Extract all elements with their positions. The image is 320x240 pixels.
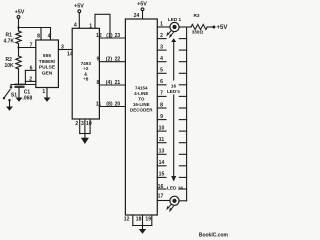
svg-text:12: 12 — [124, 217, 130, 223]
svg-text:R3: R3 — [194, 13, 200, 18]
svg-text:3: 3 — [160, 44, 163, 50]
node junction R1/R2/pin7 — [17, 46, 19, 48]
svg-text:16: 16 — [171, 84, 177, 89]
node junction at +5V rail / R1 — [17, 26, 19, 28]
svg-text:16: 16 — [158, 184, 164, 190]
svg-text:23: 23 — [115, 33, 121, 39]
resistor R2 — [16, 56, 21, 69]
wire feedback loop 7493 pin 12 to pin 1 — [95, 14, 110, 38]
wire +5V rail to 555 pins 8 and 4 — [19, 27, 51, 29]
svg-text:2: 2 — [160, 33, 163, 39]
ground (74154) — [139, 229, 146, 234]
svg-text:8: 8 — [160, 102, 163, 108]
wire output pin 8 stubs — [157, 107, 186, 109]
svg-text:8: 8 — [97, 80, 100, 86]
svg-text:17: 17 — [158, 194, 164, 200]
svg-text:+5V: +5V — [137, 2, 147, 8]
wire output pin 5 stubs — [157, 72, 186, 74]
label 16 LED's — [167, 84, 180, 95]
svg-text:12: 12 — [96, 33, 102, 39]
svg-text:18: 18 — [136, 217, 142, 223]
svg-text:+5V: +5V — [74, 3, 84, 9]
pins 12 18 19 labels (74154 bottom) — [124, 217, 151, 223]
wire 555 pin 1 to ground — [46, 88, 48, 98]
ground (below 555 pin 1) — [44, 98, 51, 102]
svg-text:21: 21 — [115, 80, 121, 86]
svg-text:6: 6 — [160, 79, 163, 85]
svg-text:2: 2 — [75, 121, 78, 127]
svg-text:(1): (1) — [106, 33, 113, 39]
wire 7493 pins 2,3,10 to ground — [80, 119, 90, 139]
counter U2: 7493 box — [72, 28, 99, 119]
svg-text:10K: 10K — [5, 63, 15, 69]
svg-text:÷8: ÷8 — [83, 77, 89, 82]
wire output pin 14 stubs — [157, 165, 186, 167]
ground (below C1) — [16, 98, 23, 102]
wire LED1 to R3 — [179, 26, 191, 28]
wire R3 to +5V terminal — [207, 26, 214, 28]
power +5V terminal (7493) — [78, 10, 81, 29]
svg-text:1: 1 — [89, 24, 92, 30]
annotation arrow 16 LED's — [171, 38, 176, 181]
svg-text:4: 4 — [74, 22, 77, 28]
svg-text:19: 19 — [145, 217, 151, 223]
wire output pin 7 stubs — [157, 95, 186, 97]
svg-text:4.7K: 4.7K — [4, 38, 15, 44]
wire output pin 15 stubs — [157, 176, 186, 178]
label 555 TIMER/PULSE GEN — [39, 53, 56, 76]
svg-text:4-LINE: 4-LINE — [134, 91, 148, 96]
svg-text:5: 5 — [160, 68, 163, 74]
svg-text:22: 22 — [115, 57, 121, 63]
ground (below S1) — [6, 100, 13, 111]
wire output pin 11 stubs — [157, 142, 186, 144]
node labels 12 (1) 23 — [96, 33, 120, 39]
svg-text:TO: TO — [138, 97, 145, 102]
svg-text:+5V: +5V — [217, 25, 228, 31]
ground (7493) — [81, 138, 89, 144]
LED 16 — [166, 196, 179, 212]
wire junction bus to 555 — [11, 84, 36, 86]
node labels 8 (4) 21 — [97, 80, 121, 86]
svg-text:13: 13 — [159, 149, 165, 155]
svg-text:16-LINE: 16-LINE — [133, 102, 150, 107]
svg-text:15: 15 — [159, 172, 165, 178]
svg-text:11: 11 — [96, 101, 102, 107]
wire output pin 4 stubs — [157, 61, 186, 63]
wire 7493 pin 8 to 74154 pin 21 — [99, 84, 125, 86]
svg-text:LED's: LED's — [167, 89, 180, 94]
node labels 11 (8) 20 — [96, 101, 121, 107]
svg-text:2: 2 — [29, 76, 32, 82]
svg-text:LED 1: LED 1 — [168, 17, 182, 22]
label 74154 4-LINE TO 16-LINE DECODER — [130, 86, 153, 113]
svg-text:4: 4 — [160, 56, 163, 62]
wire 555 pin 3 to 7493 pin 14 — [58, 49, 72, 51]
svg-text:555: 555 — [43, 53, 51, 59]
wire LED anode bus — [186, 27, 188, 201]
svg-text:(8): (8) — [106, 101, 113, 107]
svg-text:7: 7 — [30, 43, 33, 49]
op-amp U1: 555 timer box — [36, 40, 59, 88]
wire 7493 pin 11 to 74154 pin 20 — [99, 106, 125, 108]
label R2 10K — [5, 57, 15, 69]
svg-text:4: 4 — [48, 33, 51, 39]
svg-text:11: 11 — [159, 137, 165, 143]
svg-text:+5V: +5V — [15, 10, 25, 16]
svg-text:10: 10 — [159, 125, 165, 131]
power +5V terminal (74154 pin 24) — [141, 8, 144, 19]
svg-text:.068: .068 — [23, 95, 33, 101]
wire riser to 555 pin 4 — [50, 28, 52, 41]
svg-text:TIMER/: TIMER/ — [39, 59, 56, 65]
node terminal dot — [212, 26, 215, 29]
svg-text:BookIC.com: BookIC.com — [199, 233, 229, 239]
svg-text:330Ω: 330Ω — [192, 30, 204, 35]
svg-text:3: 3 — [81, 121, 84, 127]
svg-text:74154: 74154 — [135, 86, 148, 91]
label 7493 divide by 2 and 8 — [81, 61, 92, 82]
svg-text:1: 1 — [42, 89, 45, 95]
wire output pin 6 stubs — [157, 84, 186, 86]
svg-text:1: 1 — [160, 21, 163, 27]
label C1 .068 — [23, 89, 33, 101]
svg-text:9: 9 — [160, 114, 163, 120]
wire output pin 10 stubs — [157, 130, 186, 132]
svg-text:7: 7 — [160, 91, 163, 97]
wire R1 bottom to 555 pin 7 — [19, 44, 36, 48]
svg-text:PULSE: PULSE — [39, 65, 56, 71]
svg-text:24: 24 — [134, 13, 140, 19]
wire 7493 pin 12 to 74154 pin 23 — [99, 37, 125, 39]
svg-text:14: 14 — [159, 160, 165, 166]
svg-text:(2): (2) — [106, 57, 113, 63]
wire 74154 output pin 17 to LED16 — [157, 200, 170, 202]
resistor R1 — [16, 31, 21, 44]
wire 74154 output pin 1 to LED1 — [157, 26, 169, 28]
resistor R3 — [191, 24, 207, 29]
label R1 4.7K — [4, 33, 15, 45]
wire output pin 16 stubs — [157, 188, 186, 190]
node labels 9 (2) 22 — [97, 57, 121, 63]
wire output pin 9 stubs — [157, 119, 186, 121]
wire LED16 to bus — [179, 200, 187, 202]
svg-text:10: 10 — [86, 121, 92, 127]
pins 2 3 10 labels (7493 bottom) — [75, 121, 91, 127]
svg-text:LED 16: LED 16 — [167, 185, 183, 190]
svg-text:6: 6 — [30, 66, 33, 72]
svg-text:3: 3 — [61, 45, 64, 51]
wire output pin 2 stubs — [157, 38, 186, 40]
svg-text:S1: S1 — [11, 92, 17, 98]
decoder U3: 74154 box — [125, 19, 157, 215]
svg-text:20: 20 — [115, 101, 121, 107]
wire junction to R2 — [18, 48, 20, 57]
switch S1 — [3, 85, 13, 102]
wire output pin 13 stubs — [157, 153, 186, 155]
svg-text:(4): (4) — [106, 80, 113, 86]
svg-text:GEN: GEN — [42, 70, 53, 76]
svg-text:8: 8 — [37, 33, 40, 39]
LED 1 — [166, 22, 179, 38]
wire riser to 555 pin 8 — [40, 28, 42, 41]
wire 555 pin 6 to junction — [25, 70, 35, 84]
wire 555 pin 2 stub — [25, 80, 35, 82]
power +5V terminal (left, feeds R1 and 555 pins 8/4) — [17, 16, 20, 31]
svg-text:DECODER: DECODER — [130, 108, 153, 113]
wire R2 bottom to C1 junction — [18, 69, 20, 85]
svg-text:9: 9 — [97, 57, 100, 63]
wire 74154 pins 12,18,19 to ground — [133, 215, 152, 230]
wire output pin 3 stubs — [157, 49, 186, 51]
wire 7493 pin 9 to 74154 pin 22 — [99, 61, 125, 63]
capacitor C1 — [15, 85, 23, 99]
